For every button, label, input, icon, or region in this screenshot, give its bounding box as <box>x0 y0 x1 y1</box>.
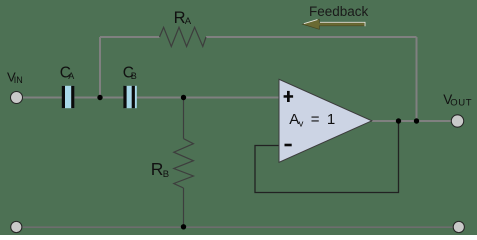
svg-text:B: B <box>163 169 169 180</box>
svg-text:Feedback: Feedback <box>309 4 369 19</box>
svg-text:1: 1 <box>327 111 335 128</box>
svg-text:B: B <box>131 71 137 81</box>
svg-text:=: = <box>311 111 320 128</box>
svg-text:R: R <box>174 9 186 27</box>
svg-text:R: R <box>151 159 164 179</box>
svg-text:v: v <box>299 118 304 129</box>
svg-text:OUT: OUT <box>450 97 472 108</box>
svg-text:IN: IN <box>14 75 23 85</box>
svg-text:A: A <box>185 16 192 27</box>
svg-text:A: A <box>68 71 74 81</box>
